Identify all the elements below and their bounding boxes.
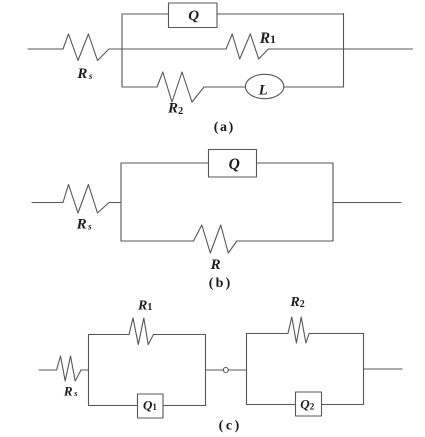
resistor R (b) bbox=[194, 225, 237, 253]
wire (a) top branch right bbox=[217, 13, 344, 15]
wire (a) bottom branch middle bbox=[204, 86, 246, 88]
svg-text:(b): (b) bbox=[209, 276, 233, 291]
resistor R2 (c) bbox=[288, 317, 309, 343]
CPE Q (a) box bbox=[169, 3, 218, 28]
wire (a) top branch left bbox=[122, 13, 169, 15]
wire (c) input bbox=[39, 369, 57, 371]
wire (b) input to junction bbox=[109, 202, 121, 204]
wire (c) block 2 top left bbox=[247, 333, 289, 335]
svg-text:Q: Q bbox=[229, 156, 240, 173]
svg-text:Q: Q bbox=[188, 8, 199, 24]
wire (a) bottom branch right bbox=[284, 86, 344, 88]
resistor R1 (a) bbox=[226, 34, 268, 59]
node (c) block 2 left vertical bbox=[246, 334, 248, 405]
svg-text:L: L bbox=[258, 82, 268, 98]
wire (a) input bbox=[28, 48, 63, 50]
wire (c) block 1 bottom right bbox=[163, 405, 206, 407]
svg-text:(a): (a) bbox=[214, 120, 235, 135]
CPE Q2 (c) box bbox=[296, 392, 322, 416]
wire (c) block 1 bottom left bbox=[89, 405, 138, 407]
node (b) right junction vertical bbox=[332, 163, 334, 241]
wire (c) middle left of node bbox=[206, 369, 224, 371]
wire (b) top branch left bbox=[121, 162, 209, 164]
resistor Rs (b) bbox=[63, 185, 109, 214]
svg-text:R: R bbox=[210, 257, 221, 273]
node (a) left junction vertical bbox=[121, 14, 123, 87]
wire (b) output bbox=[333, 202, 401, 204]
node (c) block 1 left vertical bbox=[88, 335, 90, 406]
wire (c) block 2 top right bbox=[309, 333, 363, 335]
resistor R1 (c) bbox=[129, 318, 154, 345]
wire (c) block 2 bottom left bbox=[247, 404, 296, 406]
node (c) block 1 right vertical bbox=[205, 335, 207, 406]
wire (c) middle right of node bbox=[228, 369, 246, 371]
wire (b) input bbox=[32, 202, 63, 204]
svg-text:(c): (c) bbox=[219, 419, 242, 434]
wire (b) bottom branch right bbox=[237, 240, 333, 242]
wire (a) bottom branch left bbox=[122, 86, 157, 88]
wire (a) middle left segment bbox=[109, 48, 226, 50]
wire (b) top branch right bbox=[257, 162, 334, 164]
wire (c) input to block 1 bbox=[81, 369, 89, 371]
wire (c) output bbox=[364, 368, 403, 370]
wire (c) block 1 top right bbox=[154, 334, 206, 336]
CPE Q1 (c) box bbox=[138, 394, 164, 418]
wire (b) bottom branch left bbox=[121, 240, 194, 242]
wire (c) block 2 bottom right bbox=[322, 404, 364, 406]
resistor Rs (a) bbox=[63, 34, 109, 61]
wire (c) block 1 top left bbox=[89, 334, 130, 336]
node (a) right junction vertical bbox=[343, 14, 345, 88]
resistor R2 (a) bbox=[157, 72, 204, 102]
node (b) left junction vertical bbox=[120, 163, 122, 241]
resistor Rs (c) bbox=[57, 356, 82, 381]
CPE Q (b) box bbox=[209, 150, 257, 178]
node (c) block 2 right vertical bbox=[363, 334, 365, 405]
node (c) open terminal circle bbox=[223, 368, 228, 373]
inductor L (a) oval bbox=[245, 74, 283, 98]
wire (a) middle right + output bbox=[268, 48, 412, 50]
